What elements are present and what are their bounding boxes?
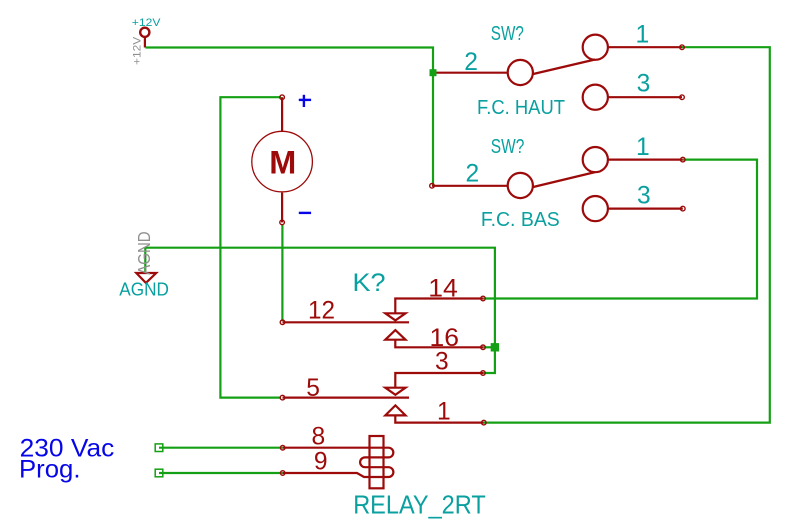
svg-text:K?: K? — [353, 270, 386, 297]
svg-text:2: 2 — [464, 49, 478, 76]
svg-text:F.C. BAS: F.C. BAS — [481, 209, 560, 231]
svg-text:RELAY_2RT: RELAY_2RT — [353, 492, 486, 520]
svg-text:AGND: AGND — [119, 278, 169, 299]
svg-text:14: 14 — [428, 276, 458, 303]
svg-text:12: 12 — [308, 298, 335, 325]
svg-text:SW?: SW? — [491, 136, 525, 158]
svg-text:9: 9 — [314, 448, 328, 475]
svg-text:1: 1 — [636, 22, 650, 49]
svg-text:8: 8 — [312, 424, 326, 451]
svg-text:+12V: +12V — [131, 36, 143, 65]
svg-text:5: 5 — [306, 375, 320, 402]
svg-text:AGND: AGND — [134, 231, 154, 274]
svg-text:3: 3 — [637, 182, 651, 209]
svg-text:F.C. HAUT: F.C. HAUT — [477, 97, 565, 119]
svg-text:M: M — [269, 144, 296, 180]
svg-text:2: 2 — [466, 160, 480, 187]
svg-text:3: 3 — [637, 71, 651, 98]
svg-text:3: 3 — [435, 349, 449, 376]
svg-text:1: 1 — [636, 134, 650, 161]
svg-text:Prog.: Prog. — [19, 456, 81, 484]
svg-text:1: 1 — [437, 399, 451, 426]
svg-text:SW?: SW? — [491, 23, 524, 45]
svg-text:+12V: +12V — [132, 17, 161, 29]
